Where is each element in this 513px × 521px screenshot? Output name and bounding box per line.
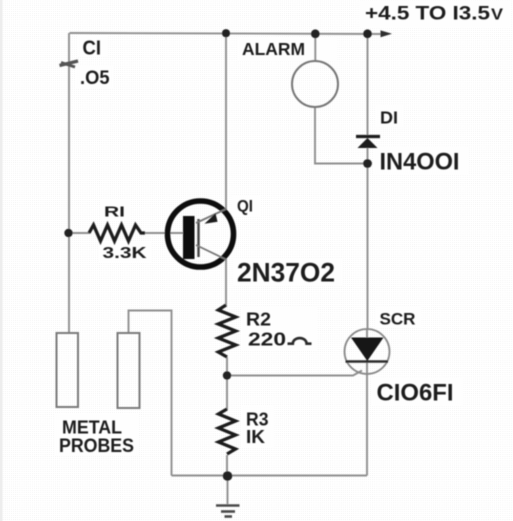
svg-text:3.3K: 3.3K [103,245,148,262]
svg-text:.O5: .O5 [80,67,110,89]
svg-text:2N37O2: 2N37O2 [237,258,335,288]
svg-text:PROBES: PROBES [59,436,134,457]
svg-text:CIO6FI: CIO6FI [377,380,454,407]
svg-text:METAL: METAL [62,418,122,438]
svg-text:R2: R2 [246,310,271,330]
svg-text:RI: RI [104,204,125,221]
svg-text:DI: DI [380,108,398,128]
svg-text:V: V [491,7,504,24]
svg-text:ALARM: ALARM [242,39,305,59]
svg-text:CI: CI [83,38,102,60]
svg-text:+4.5 TO I3.5: +4.5 TO I3.5 [365,4,490,25]
svg-text:QI: QI [237,197,253,216]
svg-text:220: 220 [248,330,286,350]
svg-text:IN4OOI: IN4OOI [380,149,460,176]
svg-text:IK: IK [246,427,265,447]
svg-text:SCR: SCR [380,310,416,329]
